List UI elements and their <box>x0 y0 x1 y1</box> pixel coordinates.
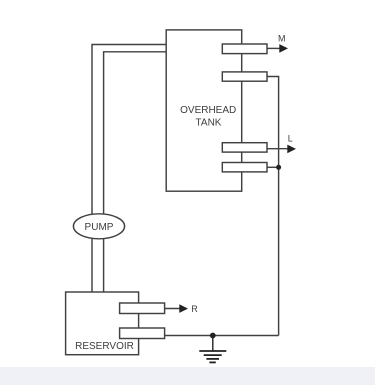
wire rect4 to node <box>266 166 279 168</box>
resistor block below M <box>222 72 267 81</box>
bottom background band <box>0 367 375 385</box>
resistor block L (tank lower outlet) <box>222 143 267 152</box>
resistor block R (reservoir outlet) <box>120 303 165 314</box>
wire pipe inner <box>104 52 167 292</box>
resistor block below L <box>222 163 267 172</box>
arrowhead L <box>287 145 296 154</box>
reservoir box <box>66 292 139 355</box>
wire M output <box>267 47 281 49</box>
svg-text:RESERVOIR: RESERVOIR <box>75 341 134 352</box>
resistor block M (tank top outlet) <box>222 44 267 54</box>
svg-text:OVERHEAD: OVERHEAD <box>180 105 236 116</box>
wire pipe outer <box>92 45 166 293</box>
node dot L line <box>276 165 281 170</box>
svg-text:M: M <box>278 33 286 43</box>
pump ellipse <box>73 214 124 239</box>
wire L output <box>266 148 289 150</box>
wire right vertical <box>267 77 279 336</box>
svg-text:R: R <box>191 304 198 314</box>
node dot ground junction <box>210 333 216 339</box>
overhead tank box <box>166 30 242 191</box>
arrowhead M <box>279 44 288 53</box>
resistor block below R <box>120 328 165 339</box>
svg-text:PUMP: PUMP <box>85 222 114 233</box>
svg-text:TANK: TANK <box>196 118 222 129</box>
wire bottom horizontal <box>165 335 279 337</box>
svg-text:L: L <box>288 133 293 143</box>
arrowhead R <box>179 304 188 313</box>
wire R output <box>165 308 181 310</box>
ground symbol <box>199 336 226 363</box>
